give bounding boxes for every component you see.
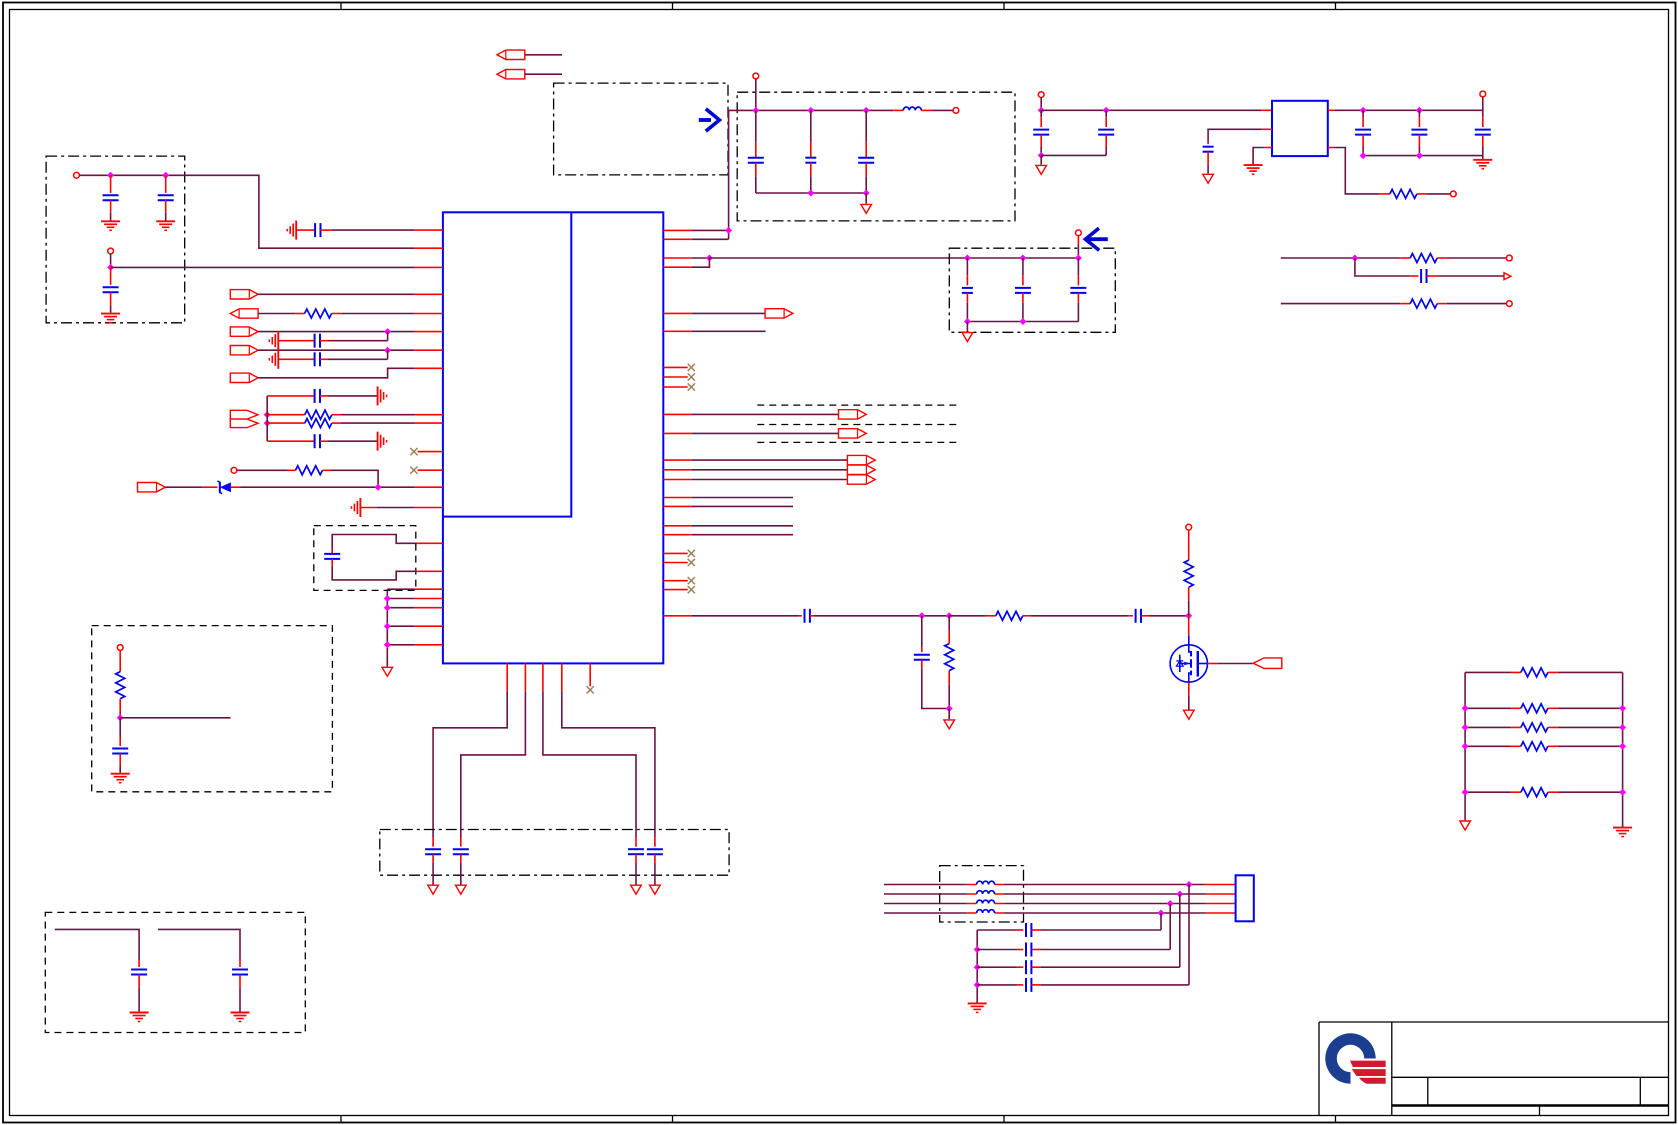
title block cell divider 2 — [1639, 1077, 1641, 1105]
capacitor C21 lower lead — [1077, 293, 1079, 303]
capacitor C10 — [131, 970, 147, 975]
node row423 — [264, 420, 271, 427]
node RF-1 — [918, 612, 925, 619]
usim pin4 stub — [1206, 912, 1236, 914]
capacitor C2 lower lead — [165, 200, 167, 213]
bead FB2 — [977, 891, 995, 894]
title block cell divider 1 — [1427, 1077, 1429, 1105]
no-connect stub row562 — [663, 562, 687, 564]
IC-MAIN — [443, 212, 663, 663]
capacitor C24 lead — [1207, 142, 1209, 144]
IC pin reg stub — [1262, 109, 1272, 111]
inductor L1 lead right — [921, 109, 932, 111]
wire R5 to node — [119, 699, 121, 713]
terminal J1 — [74, 172, 80, 178]
IC pin row525 stub — [663, 525, 691, 527]
ground usim — [968, 1003, 987, 1012]
connector dual arrow lower — [230, 419, 258, 428]
wire row423 right — [332, 422, 341, 424]
capacitor C27 — [1475, 130, 1491, 135]
capacitor C24 — [1203, 147, 1214, 152]
crystal lead top — [331, 550, 333, 554]
wire C5 to junction — [320, 340, 328, 342]
node RF-4 — [946, 705, 953, 712]
power ground C12 — [428, 885, 439, 894]
wire regout ground lead — [1482, 156, 1484, 160]
baseband IC U1 body — [443, 212, 663, 663]
wire row497 — [692, 497, 793, 499]
capacitor C35 lead right — [1031, 984, 1041, 986]
wire usim esd bus — [976, 930, 978, 1003]
capacitor C25 lead — [1362, 110, 1364, 117]
ground below C11 — [231, 1013, 250, 1022]
usim row3 wire right — [1005, 903, 1206, 905]
capacitor C9 — [112, 749, 128, 754]
resistor ladder right bus — [1622, 672, 1624, 827]
wire gate lead — [1188, 616, 1190, 636]
capacitor C25 lower lead — [1362, 135, 1364, 147]
capacitor C5 lead — [278, 340, 314, 342]
capacitor C10 lead — [138, 960, 140, 968]
node ladder-l5 — [1462, 789, 1469, 796]
resistor R5 — [116, 672, 125, 699]
ground symbol row359 — [269, 350, 278, 369]
capacitor C11 lower lead — [239, 975, 241, 989]
capacitor C21 — [1070, 288, 1086, 293]
wire reg-fb — [1335, 148, 1379, 194]
capacitor C29 — [805, 609, 810, 623]
terminal J3 — [231, 467, 237, 473]
logo quectel ring — [1325, 1033, 1375, 1083]
esd row3 wire right — [1041, 966, 1180, 968]
ground below C2 — [156, 221, 175, 230]
node filter-b2 — [863, 190, 870, 197]
wire RF 2 — [815, 615, 950, 617]
IC pin row230 stub — [663, 229, 691, 231]
dashed separator line 3 — [757, 441, 959, 443]
resistor R14 — [1521, 723, 1548, 732]
capacitor C1 lower lead — [110, 200, 112, 213]
wire cluster vertical — [266, 396, 268, 441]
wire row414 left — [267, 414, 305, 416]
power ground C13 — [456, 885, 467, 894]
bead FB3 — [977, 900, 995, 903]
terminal J11 — [1506, 255, 1512, 261]
wire R6 to terminal — [1426, 193, 1450, 195]
capacitor C26 lead — [1418, 110, 1420, 117]
wire row331 — [258, 331, 414, 333]
resistor R11 lead — [1188, 530, 1190, 560]
wire filter bottom bus — [756, 192, 866, 194]
wire row479 — [692, 479, 848, 481]
capacitor C4 — [315, 223, 320, 237]
inductor L1 — [903, 107, 921, 110]
wire row414 right — [332, 414, 341, 416]
no-connect X row589 — [688, 586, 695, 593]
capacitor C23 lower lead — [1105, 135, 1107, 147]
resistor R11 — [1184, 560, 1193, 587]
no-connect X row387 — [688, 383, 695, 390]
bead FB2 leads — [967, 893, 1005, 895]
wire RF 1 — [692, 615, 799, 617]
node vdd2-b2 — [1019, 318, 1026, 325]
no-connect X row580 — [688, 577, 695, 584]
resistor R13 leads — [1511, 707, 1558, 709]
dashed box network B — [45, 912, 305, 1032]
connector arrow row469 — [847, 465, 875, 474]
wire reg ground lead — [1040, 155, 1042, 164]
resistor R12 leads — [1511, 671, 1558, 673]
capacitor C11 — [232, 970, 248, 975]
node usim-3 — [1167, 900, 1174, 907]
dashed box network A — [92, 626, 333, 792]
IC pin reg-en stub — [1262, 128, 1272, 130]
capacitor C34 lead right — [1031, 966, 1041, 968]
wire usim drop4 — [1160, 913, 1162, 930]
node ladder-r2 — [1619, 705, 1626, 712]
wire vdd2 bottom bus — [967, 321, 1078, 323]
resistor R8 lead right — [1437, 303, 1446, 305]
node row331 — [384, 328, 391, 335]
esd row4 wire right — [1041, 984, 1189, 986]
connector arrow row350 — [230, 346, 258, 355]
capacitor C3 — [103, 287, 119, 292]
node RF-3 — [1185, 612, 1192, 619]
node ladder-l3 — [1462, 724, 1469, 731]
terminal J5 — [753, 73, 759, 79]
resistor R10 lead — [948, 616, 950, 631]
IC pin row460 stub — [663, 459, 691, 461]
node row258 — [706, 255, 713, 262]
node reg-c2 — [1103, 107, 1110, 114]
capacitor C22 — [1033, 130, 1049, 135]
ladder row2 wire — [1465, 707, 1623, 709]
IC pin row497 stub — [663, 497, 691, 499]
resistor R9 — [996, 611, 1023, 620]
no-connect X row470 — [410, 467, 417, 474]
IC pin row331r stub — [663, 330, 691, 332]
wire boxA stub — [120, 717, 230, 719]
ground below C1 — [101, 221, 120, 230]
node gnd644 — [384, 641, 391, 648]
resistor R7 — [1410, 254, 1437, 263]
wire L1 to terminal — [932, 109, 953, 111]
IC bottom pin stub 4 — [561, 663, 563, 691]
capacitor C34 — [1026, 960, 1031, 974]
IC pin reg-out stub — [1328, 109, 1335, 111]
resistor R6 lead — [1379, 193, 1390, 195]
bead FB1 leads — [967, 884, 1005, 886]
IC pin row506 stub — [663, 505, 691, 507]
resistor R3 — [305, 419, 332, 428]
capacitor C20 lead — [1022, 258, 1024, 275]
wire reg-gnd — [1253, 148, 1264, 165]
baseband IC U1 inner section divider — [443, 212, 571, 516]
wire J2 net to IC — [111, 266, 415, 268]
capacitor C17 lead — [810, 110, 812, 141]
title block thick divider — [1392, 1104, 1669, 1107]
capacitor C19 lead — [966, 258, 968, 275]
capacitor C8 lead — [267, 440, 314, 442]
wire reg cap bus — [1041, 154, 1106, 156]
IC pin row239 stub — [663, 238, 691, 240]
wire crystal top loop — [332, 535, 417, 550]
zone tick top 1 — [340, 3, 342, 10]
ladder row3 wire — [1465, 726, 1623, 728]
capacitor C16 lead — [755, 110, 757, 141]
wire usim drop1 — [1188, 885, 1190, 985]
capacitor C34 lead — [1017, 966, 1024, 968]
capacitor C28 lead — [1410, 275, 1418, 277]
wire pin4 to C15 — [562, 692, 655, 837]
wire row239 — [692, 238, 729, 240]
capacitor C16 lower lead — [755, 163, 757, 177]
ground symbol row340 — [269, 331, 278, 350]
wire row258 — [692, 257, 710, 259]
connector arrow row313r — [765, 309, 793, 318]
wire arrow to TVS — [165, 486, 201, 488]
wire reg output bus — [1335, 97, 1483, 110]
esd row4 wire — [977, 984, 1016, 986]
terminal J6 — [953, 108, 959, 114]
capacitor C31 lower lead — [921, 660, 923, 669]
node filter-1 — [752, 107, 759, 114]
capacitor C30 — [1136, 609, 1141, 623]
node row414 — [264, 411, 271, 418]
wire row414r — [692, 413, 839, 415]
no-connect stub row553 — [663, 552, 687, 554]
capacitor C6 — [315, 352, 320, 366]
capacitor C4 lead — [296, 229, 315, 231]
power ground RF — [944, 720, 955, 729]
wire row469 — [692, 469, 848, 471]
capacitor C3 lower lead — [110, 292, 112, 305]
power ground ladder — [1460, 821, 1471, 830]
capacitor C20 lower lead — [1022, 293, 1024, 303]
capacitor C13 — [453, 849, 469, 854]
IC bottom pin stub 5 — [589, 663, 591, 686]
usim pin1 stub — [1206, 884, 1236, 886]
wire row534 — [692, 534, 793, 536]
connector arrow row487 — [138, 483, 166, 492]
wire C7 to ground — [320, 395, 328, 397]
capacitor C12 — [425, 849, 441, 854]
wire C28 to arrow — [1437, 275, 1503, 277]
resistor R15 leads — [1511, 745, 1558, 747]
IC pin row534 stub — [663, 534, 691, 536]
wire J2 to junction — [110, 254, 112, 268]
terminal J13 — [1186, 524, 1192, 530]
resistor R7 lead — [1400, 257, 1410, 259]
capacitor C11 lead — [239, 960, 241, 968]
dashed separator line 2 — [757, 424, 959, 426]
resistor R4 — [296, 466, 323, 475]
wire stub row350-359 — [387, 350, 389, 359]
capacitor C13 lead — [460, 837, 462, 847]
zone tick bottom 4 — [1335, 1116, 1337, 1123]
IC pin RF stub — [663, 615, 691, 617]
wire row525 — [692, 525, 793, 527]
node row230 — [725, 227, 732, 234]
capacitor C18 lead — [865, 110, 867, 141]
wire reg-en — [1208, 129, 1262, 142]
capacitor C30 lead — [1128, 615, 1133, 617]
title block outline — [1319, 1022, 1669, 1116]
wire row313r — [692, 312, 765, 314]
capacitor C29 lead — [799, 615, 802, 617]
resistor R6 — [1390, 189, 1417, 198]
resistor R6 lead right — [1417, 193, 1427, 195]
capacitor C31 lead — [921, 616, 923, 647]
zone tick bottom 2 — [672, 1116, 674, 1123]
connector arrow row331 — [230, 327, 258, 336]
wire top1 — [525, 54, 562, 56]
wire row313 right — [332, 313, 342, 315]
wire usim drop3 — [1169, 904, 1171, 950]
power ground reg-en — [1203, 174, 1214, 183]
IC pin row433r stub — [663, 432, 691, 434]
signal arrow row276 — [1504, 273, 1511, 280]
ladder row5 wire — [1465, 791, 1623, 793]
wire RF ground lead — [948, 709, 950, 720]
wire B1 — [55, 929, 139, 959]
connector arrow row414r — [839, 410, 867, 419]
no-connect X row562 — [688, 559, 695, 566]
capacitor C29 lead right — [810, 615, 815, 617]
capacitor C18 — [858, 158, 874, 163]
capacitor C23 lead — [1105, 110, 1107, 117]
connector arrow row377 — [230, 373, 258, 382]
node usim-4 — [1158, 910, 1165, 917]
zone tick top 3 — [1003, 3, 1005, 10]
capacitor C1 lead — [110, 175, 112, 193]
terminal J8 — [1038, 92, 1044, 98]
usim row2 wire right — [1005, 893, 1206, 895]
bead FB1 — [977, 881, 995, 884]
wire B2 — [158, 929, 240, 959]
wire RF 3 — [949, 615, 986, 617]
wire Q1 source lead — [1188, 682, 1190, 695]
capacitor C3 lead — [110, 267, 112, 284]
resistor R13 — [1521, 704, 1548, 713]
zone tick top 2 — [672, 3, 674, 10]
RIGHT-SIDE — [497, 50, 1632, 1012]
capacitor C33 lead — [1017, 949, 1024, 951]
zone tick bottom 1 — [340, 1116, 342, 1123]
wire C4 to IC — [321, 229, 332, 231]
no-connect stub row377 — [663, 376, 687, 378]
node ladder-l2 — [1462, 705, 1469, 712]
node boxA — [117, 714, 124, 721]
capacitor C14 — [628, 849, 644, 854]
dash-dot box VBAT input — [46, 156, 185, 323]
capacitor C33 — [1026, 943, 1031, 957]
capacitor C22 lead — [1040, 110, 1042, 117]
capacitor C9 lead — [119, 718, 121, 738]
node vdd2-1 — [964, 255, 971, 262]
LEFT-SIDE — [46, 156, 443, 676]
IC pin row258 stub — [663, 257, 691, 259]
wire top2 — [525, 73, 562, 75]
node filter-b1 — [807, 190, 814, 197]
wire stub row331-340 — [387, 332, 389, 341]
zone tick top 4 — [1335, 3, 1337, 10]
node VBAT-1 — [107, 172, 114, 179]
usim pin2 stub — [1206, 893, 1236, 895]
dash-dot box VBAT filter — [737, 92, 1015, 221]
node J2 — [107, 264, 114, 271]
dash-dot box bypass — [380, 830, 729, 876]
node vdd2-2 — [1019, 255, 1026, 262]
IC pin row267 stub — [663, 266, 691, 268]
node ladder-r4 — [1619, 743, 1626, 750]
ladder row4 wire — [1465, 745, 1623, 747]
ground symbol row507 — [351, 498, 360, 517]
capacitor C16 — [748, 158, 764, 163]
capacitor C6 lead — [278, 358, 314, 360]
capacitor C35 — [1026, 978, 1031, 992]
no-connect X row367 — [688, 364, 695, 371]
wire row506 — [692, 505, 793, 507]
wire pin2 to C13 — [461, 692, 526, 837]
resistor R12 — [1521, 668, 1548, 677]
esd row1 wire right — [1041, 929, 1161, 931]
bead FB4 — [977, 910, 995, 913]
TVS diode D1 — [217, 481, 231, 494]
logo stripe 2 — [1352, 1069, 1386, 1076]
wire row230 — [692, 229, 729, 231]
node filter-2 — [807, 107, 814, 114]
capacitor C1 — [103, 195, 119, 200]
capacitor C7 lead — [267, 395, 314, 397]
power ground C14 — [631, 885, 642, 894]
wire pin3 to C14 — [543, 692, 636, 837]
capacitor C28 — [1421, 269, 1426, 283]
connector dual arrow upper — [230, 410, 258, 419]
node regout-1 — [1360, 107, 1367, 114]
usim row3 wire left — [884, 903, 967, 905]
ground group wires — [387, 589, 414, 645]
terminal J4 — [117, 645, 123, 651]
node row258r — [1351, 255, 1358, 262]
capacitor C33 lead right — [1031, 949, 1041, 951]
capacitor C27 lead — [1482, 110, 1484, 117]
capacitor C18 lower lead — [865, 163, 867, 177]
no-connect X row451 — [410, 448, 417, 455]
IC pin reg-gnd stub — [1264, 147, 1272, 149]
wire row294 — [258, 293, 414, 295]
IC pin row469 stub — [663, 469, 691, 471]
wire J8 drop — [1040, 98, 1042, 111]
dash-dot box usim beads — [940, 866, 1024, 922]
terminal J2 — [108, 248, 114, 254]
transistor Q1 — [1170, 636, 1207, 682]
ground below C9 — [111, 774, 130, 783]
node filter-3 — [863, 107, 870, 114]
capacitor C2 — [158, 195, 174, 200]
capacitor C26 lower lead — [1418, 135, 1420, 147]
BOTTOM — [45, 626, 729, 1033]
node regout-b2 — [1416, 152, 1423, 159]
connector arrow row479 — [847, 475, 875, 484]
node gnd607 — [384, 604, 391, 611]
node gnd626 — [384, 623, 391, 630]
capacitor C23 — [1098, 130, 1114, 135]
capacitor C21 lead — [1077, 258, 1079, 275]
wire R7 to terminal — [1447, 257, 1507, 259]
wire VBAT drop to IC pins — [728, 110, 730, 239]
wire C6 to junction — [320, 358, 328, 360]
